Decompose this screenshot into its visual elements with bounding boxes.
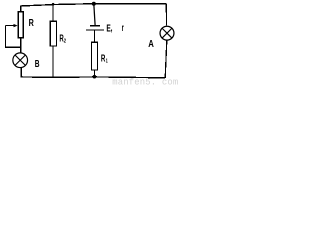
svg-text:,: , bbox=[111, 23, 113, 34]
wire battery bottom lead bbox=[94, 31, 96, 43]
svg-text:r: r bbox=[122, 23, 124, 34]
wire R2 top lead bbox=[52, 4, 54, 21]
resistor R bbox=[18, 12, 23, 38]
lamp B bbox=[13, 53, 28, 68]
wire R1 bottom lead bbox=[94, 71, 96, 77]
svg-text:1: 1 bbox=[106, 59, 108, 65]
node R1 bottom junction bbox=[93, 75, 97, 79]
svg-text:manfen5. com: manfen5. com bbox=[112, 77, 178, 85]
resistor R1 bbox=[91, 42, 97, 70]
wire battery top lead bbox=[94, 4, 95, 25]
wire B bottom lead bbox=[20, 67, 22, 77]
rheostat arrow bbox=[5, 25, 14, 27]
resistor R2 bbox=[50, 21, 56, 46]
wire R bottom lead bbox=[20, 38, 22, 54]
battery E short plate bbox=[90, 25, 100, 27]
background bbox=[0, 0, 184, 85]
wire bottom bbox=[21, 76, 166, 79]
lamp A bbox=[160, 26, 174, 40]
wire R2 bottom lead bbox=[52, 46, 54, 77]
wire A top lead bbox=[165, 4, 167, 26]
svg-text:R: R bbox=[29, 18, 35, 29]
node battery top junction bbox=[92, 2, 96, 6]
svg-text:A: A bbox=[148, 39, 154, 50]
node R2 top junction bbox=[52, 3, 55, 6]
svg-text:B: B bbox=[35, 59, 40, 70]
battery E long plate bbox=[86, 29, 104, 31]
wire top bbox=[20, 4, 166, 6]
wire wiper tap bbox=[5, 26, 20, 48]
wire A bottom lead bbox=[165, 41, 167, 78]
wire R top lead bbox=[20, 6, 22, 12]
